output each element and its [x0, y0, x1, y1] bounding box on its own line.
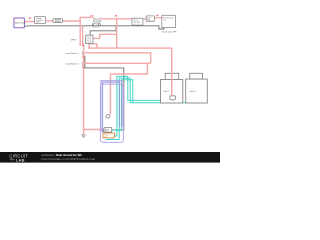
breaker U3 — [146, 16, 154, 21]
wire teal 3 relay spur — [112, 80, 133, 131]
wire gray from level switch to pump relay — [85, 56, 124, 130]
ground bus wire (negative) — [24, 26, 163, 29]
tank 1 cap — [165, 73, 178, 79]
svg-text:120V 12V: 120V 12V — [92, 27, 100, 29]
wire red into tank 1 — [171, 48, 173, 96]
transformer T1 — [93, 18, 100, 26]
ground node arrow — [82, 135, 85, 138]
wire red to pump motor — [110, 63, 147, 114]
svg-text:Generator OFF: Generator OFF — [162, 31, 177, 34]
wire red main vertical to ground — [83, 44, 85, 135]
wire red drop from + node down — [116, 19, 118, 48]
wire red controller to fuse to transformer (staircase) — [46, 16, 93, 21]
wire red level switch 2 — [85, 62, 151, 64]
wire red level switch 1 — [85, 53, 151, 64]
svg-text:Level Switch 2: Level Switch 2 — [66, 63, 80, 66]
wire teal 2 pump to tank 2 — [106, 78, 196, 139]
svg-text:Relay: Relay — [105, 129, 109, 131]
relay K1 (DPDT) — [86, 35, 93, 43]
transformer T1 bottom pin stubs — [93, 23, 99, 26]
pump relay K2 — [104, 128, 112, 133]
svg-text:Level Switch 1: Level Switch 1 — [66, 52, 80, 55]
pump P1 — [103, 133, 115, 138]
tank 1 connector — [170, 96, 176, 100]
wire red to pump relay — [84, 129, 104, 131]
svg-text:DPDT: DPDT — [71, 39, 77, 41]
fuse F1 — [53, 19, 63, 23]
svg-text:Tank 1: Tank 1 — [163, 91, 170, 93]
svg-text:24V 20A: 24V 20A — [133, 21, 140, 24]
svg-text:LAB: LAB — [16, 157, 25, 162]
tank 2 cap — [190, 73, 203, 79]
wire teal 1 pump to tank 1 — [113, 76, 173, 136]
tank 1 — [161, 80, 183, 104]
svg-text:SPDT: SPDT — [105, 131, 109, 133]
wire red drop A to relay — [79, 21, 81, 45]
svg-text:http://circuitlab.com/c/26br5z: http://circuitlab.com/c/26br5zw8f/sd-fin… — [42, 157, 96, 161]
converter U2 12V-24V — [132, 18, 143, 25]
tank 2 — [186, 79, 208, 103]
svg-text:Main: Main — [147, 17, 151, 19]
footer bar — [0, 152, 220, 163]
svg-text:Solar Panels: Solar Panels — [15, 22, 26, 25]
svg-text:Pump: Pump — [104, 134, 108, 136]
generator G1 — [162, 15, 176, 27]
svg-text:MPPT: MPPT — [36, 22, 40, 24]
wire red feed to tank 1 — [89, 47, 172, 49]
wire gray drop to relay K1 top — [90, 26, 116, 36]
wire red drop B to relay — [82, 26, 84, 45]
pump motor M1 — [106, 115, 110, 119]
charge controller U1 — [35, 17, 46, 24]
svg-text:Charge: Charge — [36, 17, 42, 20]
wire violet 1 — [101, 81, 122, 131]
wire red solar to controller — [24, 21, 34, 23]
node + marks — [29, 14, 158, 19]
svg-text:Link: Link — [163, 20, 166, 22]
wire red staple above relay — [89, 44, 97, 48]
transformer red top stubs — [93, 17, 101, 19]
wire violet 2 — [103, 82, 120, 132]
pump group box — [100, 84, 123, 142]
svg-text:Tank 2: Tank 2 — [190, 91, 197, 93]
svg-text:AC Generator: AC Generator — [163, 16, 174, 19]
solar panel PV1 — [14, 18, 25, 28]
wire red relay link — [93, 34, 117, 38]
wire red transformer to converter to generator — [101, 18, 162, 19]
